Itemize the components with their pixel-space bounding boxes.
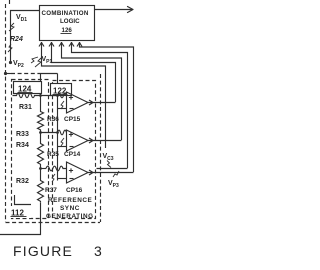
leader arrow for V_P2 <box>31 57 38 63</box>
wire tap top node to R36 <box>41 94 59 97</box>
text reference sync generating <box>46 197 94 220</box>
wire CP15 output with arrowhead <box>88 100 116 105</box>
svg-text:COMBINATION: COMBINATION <box>42 10 89 17</box>
text COMBINATION LOGIC 126 <box>42 10 89 34</box>
output arrow from combination logic <box>95 7 134 13</box>
wire bus to CP16 minus input <box>58 178 68 180</box>
resistor R32 vertical <box>38 169 44 203</box>
svg-text:R35: R35 <box>47 151 59 158</box>
dashed box 124 <box>12 80 49 219</box>
svg-text:VC3: VC3 <box>103 153 114 162</box>
wire stem logic input 2 from CP15 <box>49 42 116 102</box>
wire tap node C to R37 <box>41 168 47 170</box>
leader arrow for V_P3 <box>113 171 119 177</box>
resistor R34 vertical <box>38 133 44 169</box>
label R33 <box>16 131 29 138</box>
resistor R37 to CP16 plus input <box>46 166 67 171</box>
leader arrow for R35 <box>61 138 64 146</box>
svg-text:VP2: VP2 <box>13 60 24 69</box>
label 112 <box>11 209 27 218</box>
label V_D1 <box>16 14 27 23</box>
svg-text:CP15: CP15 <box>64 116 81 123</box>
wire string bottom to left rail <box>0 203 41 235</box>
wire CP16 output with arrowhead <box>88 170 134 175</box>
svg-text:GENERATING: GENERATING <box>46 213 94 220</box>
wire reference bus vertical <box>57 74 59 181</box>
wire tap node B to R35 <box>41 131 59 134</box>
node top of string <box>39 94 42 97</box>
label R32 <box>16 178 29 185</box>
svg-text:CP16: CP16 <box>66 187 83 194</box>
label R37 <box>45 187 57 194</box>
svg-text:R31: R31 <box>19 104 32 111</box>
outer dashed boundary 112 right edge <box>100 74 102 222</box>
svg-text:VD1: VD1 <box>16 14 27 23</box>
svg-text:R32: R32 <box>16 178 29 185</box>
svg-text:R24: R24 <box>10 36 23 43</box>
svg-text:VP3: VP3 <box>108 180 119 189</box>
svg-text:R36: R36 <box>47 116 59 123</box>
op-amp CP16 <box>67 162 89 183</box>
svg-text:LOGIC: LOGIC <box>60 18 80 25</box>
wire stem logic input 5 from CP16 <box>77 42 134 172</box>
label R34 <box>16 142 29 149</box>
label CP14 <box>64 151 81 158</box>
wire bus to CP15 minus input <box>58 108 68 110</box>
leader arrow for V_C3 <box>107 161 111 168</box>
svg-text:VP1: VP1 <box>42 56 53 65</box>
svg-text:R34: R34 <box>16 142 29 149</box>
wire V_P2 dashed feed from boundary node <box>4 72 38 75</box>
op-amp CP14 <box>67 130 89 151</box>
wire stem logic input 1 to V_C3 line <box>39 42 106 148</box>
label V_P1 <box>42 56 53 65</box>
node tap B <box>39 131 42 134</box>
svg-text:REFERENCE: REFERENCE <box>48 197 93 204</box>
svg-text:R33: R33 <box>16 131 29 138</box>
node tap C <box>39 167 42 170</box>
label 112 bracket <box>9 195 31 218</box>
figure caption <box>13 243 102 259</box>
label R35 <box>47 151 59 158</box>
label R36 <box>47 116 59 123</box>
svg-text:CP14: CP14 <box>64 151 81 158</box>
leader arrow for V_P1 <box>35 58 41 67</box>
resistor R33 vertical <box>38 96 44 132</box>
outer dashed boundary 112 bottom edge <box>6 222 101 224</box>
label 124 <box>18 85 33 94</box>
label R31 <box>19 104 32 111</box>
resistor R36 to CP15 plus input <box>58 93 68 98</box>
svg-text:3: 3 <box>94 243 102 259</box>
wire V_P2 solid segment to reference bus <box>38 73 58 75</box>
wire stem logic input 3 from CP14 <box>59 42 122 140</box>
wire CP14 output with arrowhead <box>88 138 122 143</box>
label CP16 <box>66 187 83 194</box>
leader arrow for R36 <box>61 101 64 109</box>
label CP15 <box>64 116 81 123</box>
label V_C3 <box>103 153 114 162</box>
outer dashed boundary 112 left edge <box>6 0 10 222</box>
label V_P3 <box>108 180 119 189</box>
leader arrow for R37 <box>52 174 55 182</box>
op-amp CP15 <box>67 92 89 113</box>
resistor R35 to CP14 plus input <box>58 130 68 135</box>
wire V_P3 horizontal <box>97 168 128 170</box>
wire stem logic input 4 from V_P3 line <box>69 42 128 168</box>
wire string top lead <box>40 74 42 96</box>
label V_P2 <box>13 60 24 69</box>
svg-text:SYNC: SYNC <box>60 205 80 212</box>
svg-text:FIGURE: FIGURE <box>13 243 73 259</box>
label box 124 <box>14 82 42 94</box>
label R24 <box>10 36 23 43</box>
wire bus to CP14 minus input <box>58 146 68 148</box>
label 122 <box>53 87 68 96</box>
resistor R31 horizontal at top of string <box>13 93 41 97</box>
leader arrow for V_D1 <box>9 23 14 31</box>
svg-text:R37: R37 <box>45 187 57 194</box>
combination logic box U126 <box>40 6 95 41</box>
wire V_D1 from combination logic down left side <box>9 11 40 65</box>
leader arrow for R24 <box>8 44 12 52</box>
dashed box 122 <box>53 81 96 219</box>
svg-text:126: 126 <box>62 27 73 34</box>
label box 122 <box>51 84 72 96</box>
